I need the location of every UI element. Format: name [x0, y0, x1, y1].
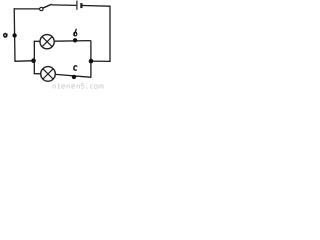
node c junction dot [72, 75, 76, 79]
battery B1 long plate (+) [76, 1, 78, 10]
lamp L2 X cross [43, 69, 53, 79]
switch S1 lever [43, 4, 52, 8]
wire battery to top-right corner [83, 5, 111, 8]
junction dot right branch [89, 59, 94, 64]
label node b [74, 29, 78, 36]
battery B1 short plate (-) [80, 3, 82, 8]
wire lamp c to right branch [56, 74, 92, 77]
wire right branch vertical [90, 41, 92, 78]
label node a [4, 33, 7, 37]
wire lamp b to right branch [55, 40, 91, 43]
lamp L1 (b branch) bulb circle [40, 35, 54, 49]
junction dot left branch [31, 58, 36, 63]
lamp L1 X cross [42, 37, 52, 47]
wire bottom-left horizontal [14, 60, 33, 63]
switch S1 pivot circle [40, 7, 43, 10]
wire left vertical [13, 8, 16, 61]
wire right horizontal to junction [91, 60, 111, 62]
node b junction dot [73, 38, 77, 42]
wire left branch vertical [33, 41, 35, 74]
wire top-left horizontal [14, 8, 40, 10]
wire stub to lamp c [34, 73, 41, 75]
watermark [53, 84, 103, 89]
node a junction dot [12, 33, 16, 37]
wire switch to battery [52, 4, 77, 7]
wire right vertical [109, 6, 111, 62]
label node c [74, 66, 77, 70]
lamp L2 (c branch) bulb circle [41, 67, 56, 82]
wire stub to lamp b [34, 40, 40, 42]
